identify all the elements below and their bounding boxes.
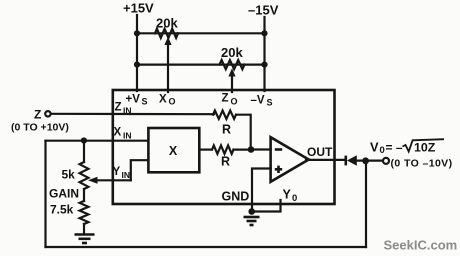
junction upper rail left — [134, 30, 140, 36]
svg-text:O: O — [169, 97, 176, 107]
wire junction down to gain pot — [83, 141, 85, 163]
svg-text:R: R — [221, 155, 230, 169]
wiper arrow to Z0 pin — [228, 68, 235, 92]
wire -15V rail vertical — [263, 17, 265, 91]
svg-text:20k: 20k — [156, 15, 178, 30]
wire Y0 pin to ground net — [252, 200, 281, 212]
svg-text:S: S — [142, 97, 148, 107]
svg-text:= –: = – — [386, 141, 403, 155]
svg-text:Y: Y — [283, 188, 292, 202]
wire diode to output terminal — [357, 160, 383, 162]
terminal V0 output — [383, 158, 389, 164]
pin label Z0 — [222, 93, 238, 107]
svg-text:Y: Y — [113, 166, 121, 178]
svg-text:GAIN: GAIN — [49, 187, 79, 201]
diode D1 — [346, 155, 357, 165]
multiplier core X — [148, 128, 199, 172]
svg-text:GND: GND — [222, 190, 250, 204]
pin label YIN — [113, 166, 131, 180]
multiplier IC U1 body — [113, 90, 335, 204]
svg-text:Z: Z — [115, 102, 122, 114]
junction output feedback node — [362, 157, 369, 164]
wiper arrow to X0 pin — [164, 37, 171, 92]
label V0 = -sqrt(10Z) — [370, 139, 444, 156]
svg-text:SeekIC.com: SeekIC.com — [384, 238, 458, 253]
svg-text:–V: –V — [251, 95, 265, 107]
wire multiplier output to R — [199, 149, 212, 151]
svg-text:7.5k: 7.5k — [50, 203, 74, 217]
svg-text:O: O — [231, 97, 238, 107]
pin label Y0 — [283, 188, 298, 205]
pin label +VS — [126, 94, 148, 107]
wire summing node to op-amp inverting input — [251, 148, 271, 150]
svg-text:V: V — [370, 140, 379, 155]
svg-text:X: X — [114, 127, 122, 139]
junction ground net — [248, 208, 255, 215]
svg-text:Z: Z — [34, 108, 41, 122]
svg-text:Z: Z — [222, 93, 229, 105]
ground (op-amp reference) — [244, 217, 260, 225]
wire lower R to summing node — [234, 149, 252, 151]
potentiometer 20k (Z0 trim) — [220, 60, 245, 69]
resistor R (upper, Z feedback) — [213, 111, 236, 119]
pin label X0 — [159, 94, 176, 107]
pin label ZIN — [115, 102, 132, 116]
junction lower rail left — [134, 62, 140, 68]
op-amp A1 — [271, 137, 309, 182]
wire upper R to summing node — [236, 115, 251, 150]
resistor R (lower, multiplier output) — [212, 145, 234, 153]
wire YIN wiper to multiplier core — [131, 160, 149, 180]
terminal Z input — [34, 108, 51, 122]
svg-text:(0 TO +10V): (0 TO +10V) — [11, 122, 69, 134]
svg-text:5k: 5k — [62, 168, 76, 182]
potentiometer 5k GAIN — [80, 162, 89, 189]
pin label XIN — [114, 127, 132, 141]
svg-text:+V: +V — [126, 94, 141, 106]
wire op-amp output to diode — [306, 159, 345, 161]
wire feedback bottom run — [46, 246, 367, 248]
wire lower rail horizontal — [137, 63, 265, 65]
svg-text:R: R — [222, 123, 231, 137]
resistor 7.5k — [80, 201, 89, 224]
ground (gain divider) — [75, 224, 95, 243]
pin label -VS — [251, 95, 273, 108]
wire Z terminal to ZIN pin and internal run to R — [51, 113, 214, 116]
op-amp minus sign — [275, 148, 282, 151]
junction upper rail right — [261, 30, 267, 36]
svg-text:X: X — [169, 144, 178, 158]
wiper arrow YIN to 5k — [88, 177, 131, 184]
svg-text:IN: IN — [122, 170, 131, 180]
svg-text:S: S — [267, 98, 273, 108]
svg-text:–15V: –15V — [248, 3, 279, 18]
svg-text:20k: 20k — [221, 45, 243, 60]
svg-text:OUT: OUT — [307, 145, 333, 159]
svg-text:+15V: +15V — [123, 1, 154, 16]
svg-text:0: 0 — [380, 145, 385, 156]
wire XIN input — [46, 140, 149, 142]
wire upper rail horizontal — [137, 32, 265, 34]
junction XIN / gain divider — [81, 137, 87, 143]
svg-text:IN: IN — [123, 131, 132, 141]
svg-text:0: 0 — [292, 193, 297, 204]
junction summing node — [248, 146, 255, 153]
svg-text:10Z: 10Z — [414, 141, 436, 155]
wire +15V rail vertical — [136, 15, 138, 91]
junction lower rail right — [261, 62, 267, 68]
svg-text:X: X — [159, 94, 167, 106]
wire feedback left vertical to XIN — [44, 141, 46, 247]
wire output feedback vertical — [365, 161, 367, 247]
svg-text:(0 TO –10V): (0 TO –10V) — [391, 158, 453, 170]
op-amp plus sign — [275, 166, 282, 173]
wire op-amp noninverting input to ground net — [252, 169, 271, 212]
potentiometer 20k (X0 trim) — [155, 29, 178, 38]
wire 5k to 7.5k — [83, 189, 85, 201]
